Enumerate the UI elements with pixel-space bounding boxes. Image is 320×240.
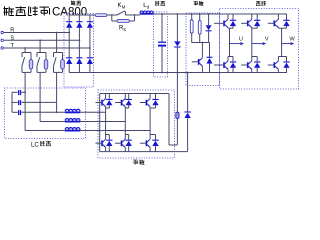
terminal S	[1, 39, 3, 41]
wire phase join bottom V6	[278, 56, 286, 58]
svg-text:V: V	[265, 36, 269, 42]
wire rectifier bottom rail DC-	[69, 72, 95, 74]
contactor Km	[112, 14, 117, 16]
label 滤波 filter	[154, 1, 156, 6]
transistor V11	[147, 99, 150, 102]
wire phase join top V3	[251, 27, 253, 30]
wire gate V1	[214, 22, 223, 24]
terminal T	[1, 47, 3, 49]
wire gate V12	[140, 142, 146, 144]
wire cap wire 3 to L1	[12, 111, 18, 113]
diode D5 rectifier bottom	[76, 57, 82, 59]
wire branch bottom K1 phase T	[22, 71, 31, 73]
diode D17	[106, 139, 112, 141]
wire stem K3 phase R	[56, 33, 58, 53]
wire phase vertical V3	[251, 28, 253, 56]
wire phase vertical V7	[105, 108, 107, 135]
wire branch top K3 phase R	[54, 52, 63, 54]
transistor V9	[122, 99, 125, 102]
diode D20	[152, 99, 158, 101]
transistor V12	[147, 139, 150, 142]
filter box 滤波	[154, 12, 168, 77]
wire gate V11	[140, 102, 146, 104]
wire output arrow V	[252, 43, 265, 45]
diode D15	[283, 61, 289, 63]
brake box 刹车	[186, 13, 220, 86]
wire phase join bottom V10	[125, 134, 128, 136]
wire branch top K2 phase S	[37, 52, 46, 54]
diode D12	[254, 19, 260, 21]
label 整流 rectifier	[71, 1, 73, 6]
diode D6 rectifier bottom	[87, 57, 93, 59]
wire phase join bottom V12	[150, 134, 155, 136]
wire emitters to rail V12	[149, 147, 151, 151]
wire phase join top V9	[124, 107, 126, 108]
diode D10	[230, 19, 236, 21]
wire feedback left riser	[99, 94, 101, 152]
wire phase1 crossover to L3	[24, 88, 26, 131]
label 逆变 inverter	[256, 1, 261, 3]
wire bus diode branch	[176, 14, 178, 41]
wire gate V7	[96, 102, 102, 104]
wire feedback link B	[187, 73, 189, 113]
svg-text:U: U	[239, 36, 243, 42]
wire L2 to feedback	[80, 121, 125, 123]
wire rectifier column 1	[68, 15, 70, 22]
resistor R2 brake	[198, 21, 201, 35]
switch K3 phase R	[53, 53, 55, 58]
wire emitters to rail V8	[105, 147, 107, 151]
wire L1 to feedback	[80, 111, 106, 113]
transistor V3	[248, 19, 252, 22]
wire rectifier column 3	[89, 15, 91, 22]
wire phase join top V1	[227, 27, 229, 30]
wire phase join bottom V2	[228, 56, 233, 58]
wire phase vertical V1	[229, 28, 231, 56]
wire L3 to feedback	[80, 130, 150, 132]
wire gate V5	[268, 22, 274, 24]
switch K1 phase T	[21, 53, 23, 58]
diode D7 bus	[174, 41, 180, 46]
transistor V8	[102, 139, 105, 142]
wire phase3 crossover to L1	[56, 88, 58, 112]
feedback box 回馈	[98, 90, 175, 158]
diode D16	[106, 99, 112, 101]
diode D13	[254, 61, 260, 63]
svg-text:LC: LC	[31, 143, 39, 149]
wire phase join bottom V4	[252, 56, 257, 58]
wire gate V8	[96, 142, 102, 144]
wire feedback link A	[169, 144, 177, 146]
wire emitters to rail V6	[277, 69, 279, 72]
wire gate V4	[241, 64, 247, 66]
diode D9 brake	[209, 43, 211, 58]
label 刹车 brake	[194, 0, 198, 2]
diode D8 brake	[206, 25, 212, 30]
capacitor C1 bus	[158, 42, 166, 43]
diode D2 rectifier top	[76, 21, 82, 23]
inductor Ld	[140, 11, 143, 13]
diode D11	[230, 61, 236, 63]
transistor V6	[275, 61, 279, 64]
fuse F2 feedback	[176, 112, 179, 118]
wire feedback DC riser	[168, 94, 170, 146]
wire cell risers V11	[149, 94, 151, 99]
rectifier box 整流	[64, 14, 94, 88]
transistor Q1 brake	[199, 58, 202, 61]
wire brake collector	[201, 43, 203, 58]
diode D18	[126, 99, 132, 101]
transistor V5	[275, 19, 279, 22]
wire phase join bottom V8	[106, 134, 110, 136]
wire emitters to rail V4	[251, 69, 253, 72]
wire S line	[4, 39, 79, 41]
wire DC+ rail to inverter	[153, 13, 287, 15]
wire feedback top rail	[100, 93, 169, 95]
resistor Rs	[117, 20, 129, 23]
wire cell risers V9	[124, 94, 126, 99]
wire brake rail taps	[191, 14, 193, 20]
wire branch bottom K3 phase R	[54, 71, 63, 73]
wire brake gate	[192, 61, 198, 63]
wire phase vertical V11	[149, 108, 151, 135]
wire DC- rail	[95, 72, 287, 74]
diode D19	[126, 139, 132, 141]
wire T line	[4, 47, 90, 49]
capacitor C2	[18, 90, 19, 95]
wire cap bus vertical	[11, 92, 13, 112]
resistor R1 brake	[190, 20, 193, 33]
transistor V1	[224, 19, 228, 22]
inductor L1	[65, 109, 69, 111]
wire phase join top V11	[149, 107, 151, 108]
transistor V4	[248, 61, 252, 64]
wire rectifier top rail	[69, 14, 95, 16]
diode D4 rectifier bottom	[66, 57, 72, 59]
wire gate V6	[268, 64, 274, 66]
fuse K3 phase R	[61, 60, 65, 69]
inductor L3	[65, 128, 69, 130]
wire gate V3	[241, 22, 247, 24]
wire stem K1 phase T	[24, 48, 26, 53]
fuse K1 phase T	[29, 60, 33, 69]
wire gate V10	[115, 142, 121, 144]
LC filter box	[5, 88, 86, 139]
wire feedback bottom rail	[100, 151, 188, 153]
inverter box 逆变	[220, 9, 299, 90]
transistor V2	[224, 61, 228, 64]
diode D22 feedback	[184, 111, 190, 113]
wire DC+ to Ld	[135, 14, 141, 16]
wire cell risers V3	[251, 14, 253, 19]
wire cell risers V1	[227, 14, 229, 19]
wire DC+ rail from rectifier	[95, 14, 112, 16]
wire output arrow W	[282, 43, 293, 45]
svg-text:M: M	[122, 4, 126, 9]
wire emitters to rail V2	[227, 69, 229, 72]
fuse K2 phase S	[44, 60, 48, 69]
switch K2 phase S	[36, 53, 38, 58]
capacitor C4	[18, 110, 19, 115]
label 回馈 feedback	[133, 159, 138, 161]
capacitor C3	[18, 100, 19, 105]
wire phase2 to L2	[39, 88, 41, 122]
wire R line	[4, 32, 69, 34]
wire emitters to rail V10	[124, 147, 126, 151]
wire brake join	[191, 33, 193, 42]
transistor V7	[102, 99, 105, 102]
diode D1 rectifier top	[66, 21, 72, 23]
wire gate V9	[115, 102, 121, 104]
wire branch top K1 phase T	[22, 52, 31, 54]
diode D3 rectifier top	[87, 21, 93, 23]
wire phase join top V7	[105, 107, 107, 108]
wire phase join top V5	[277, 27, 279, 30]
diode D21	[152, 139, 158, 141]
wire phase vertical V9	[124, 108, 126, 135]
wire cell risers V7	[105, 94, 107, 99]
label copyright 版权所有	[4, 6, 6, 15]
wire brake emitter	[201, 66, 203, 73]
wire stem K2 phase S	[39, 40, 41, 52]
wire phase vertical V5	[281, 28, 283, 56]
wire Rs branch	[111, 15, 113, 21]
wire filter cap branch	[161, 14, 163, 42]
transistor V10	[122, 139, 125, 142]
svg-text:S: S	[123, 27, 126, 32]
wire cap wire 2	[12, 101, 18, 103]
wire gate V2	[214, 64, 223, 66]
wire cell risers V5	[277, 14, 279, 19]
terminal R	[1, 31, 3, 33]
wire cap wire 1	[12, 91, 18, 93]
diode D14	[283, 19, 289, 21]
fuse F1 dc link	[95, 14, 107, 17]
wire rectifier column 2	[78, 15, 80, 22]
wire output arrow U	[230, 43, 243, 45]
wire branch bottom K2 phase S	[37, 71, 46, 73]
inductor L2	[65, 119, 69, 121]
svg-text:W: W	[289, 36, 295, 42]
